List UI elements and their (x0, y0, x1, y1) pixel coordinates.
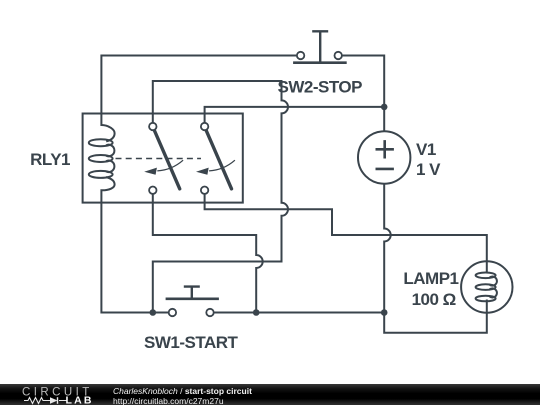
relay RLY1 coil (89, 114, 115, 204)
SW1 left terminal (169, 309, 176, 316)
footer credit text (113, 386, 252, 405)
pushbutton SW2 plunger (312, 31, 328, 61)
CircuitLab logo (0, 384, 110, 405)
wire coil-bottom to SW1 left terminal (bottom bus left) (101, 203, 168, 313)
logo resistor-diode wire (24, 397, 67, 404)
voltage source V1 circle (358, 131, 410, 183)
relay RLY1 pole2 blade (206, 130, 232, 189)
wire coil-top to SW2 left terminal (101, 56, 297, 114)
V1 minus sign (376, 168, 394, 171)
wire relay pole2 bottom terminal to LAMP1 top (205, 194, 487, 261)
node C junction dot (253, 309, 260, 316)
relay pole1 bottom terminal (149, 187, 156, 194)
node D junction dot (381, 309, 388, 316)
relay RLY1 mechanical link (dashed) (116, 158, 202, 160)
relay pole1 arrow head (144, 168, 157, 175)
pushbutton SW1 bar (normally open) (166, 297, 219, 300)
wire V1 bottom with hop to node D (384, 184, 391, 313)
wire relay pole1 top terminal, long vertical with hops, to node B (153, 81, 288, 313)
V1 plus sign (376, 140, 394, 158)
svg-text:100 Ω: 100 Ω (412, 290, 456, 309)
relay RLY1 pole1 arrow (157, 160, 183, 171)
lamp LAMP1 circle (461, 261, 512, 312)
wire node D to LAMP1 bottom (384, 313, 487, 333)
svg-text:SW1-START: SW1-START (144, 333, 239, 352)
svg-text:LAMP1: LAMP1 (403, 269, 458, 288)
SW2 right terminal (335, 52, 342, 59)
SW1 right terminal (206, 309, 213, 316)
wire SW2 right terminal to node A and V1 top (342, 56, 384, 132)
relay RLY1 body box (83, 114, 243, 203)
relay pole2 arrow head (196, 168, 209, 175)
svg-text:SW2-STOP: SW2-STOP (278, 78, 363, 97)
logo diode triangle (50, 397, 58, 404)
pushbutton SW2 bar (normally closed) (293, 61, 347, 64)
pushbutton SW1 plunger (184, 287, 200, 298)
svg-text:1 V: 1 V (416, 160, 441, 179)
relay pole2 top terminal (201, 123, 208, 130)
relay pole1 top terminal (149, 123, 156, 130)
footer bar (0, 384, 540, 405)
wire relay pole2 top terminal to node A (205, 107, 385, 123)
node A junction dot (381, 104, 388, 111)
wire relay pole1 bottom terminal with hop to node C (153, 194, 263, 313)
svg-text:RLY1: RLY1 (30, 150, 70, 169)
wire SW1 right terminal to node D (214, 312, 385, 314)
relay RLY1 pole2 arrow (209, 160, 235, 171)
SW2 left terminal (297, 52, 304, 59)
relay RLY1 pole1 blade (154, 130, 180, 189)
lamp LAMP1 filament (476, 261, 497, 312)
node B junction dot (150, 309, 157, 316)
relay pole2 bottom terminal (201, 187, 208, 194)
svg-text:V1: V1 (416, 140, 436, 159)
svg-text:LAB: LAB (66, 395, 94, 405)
